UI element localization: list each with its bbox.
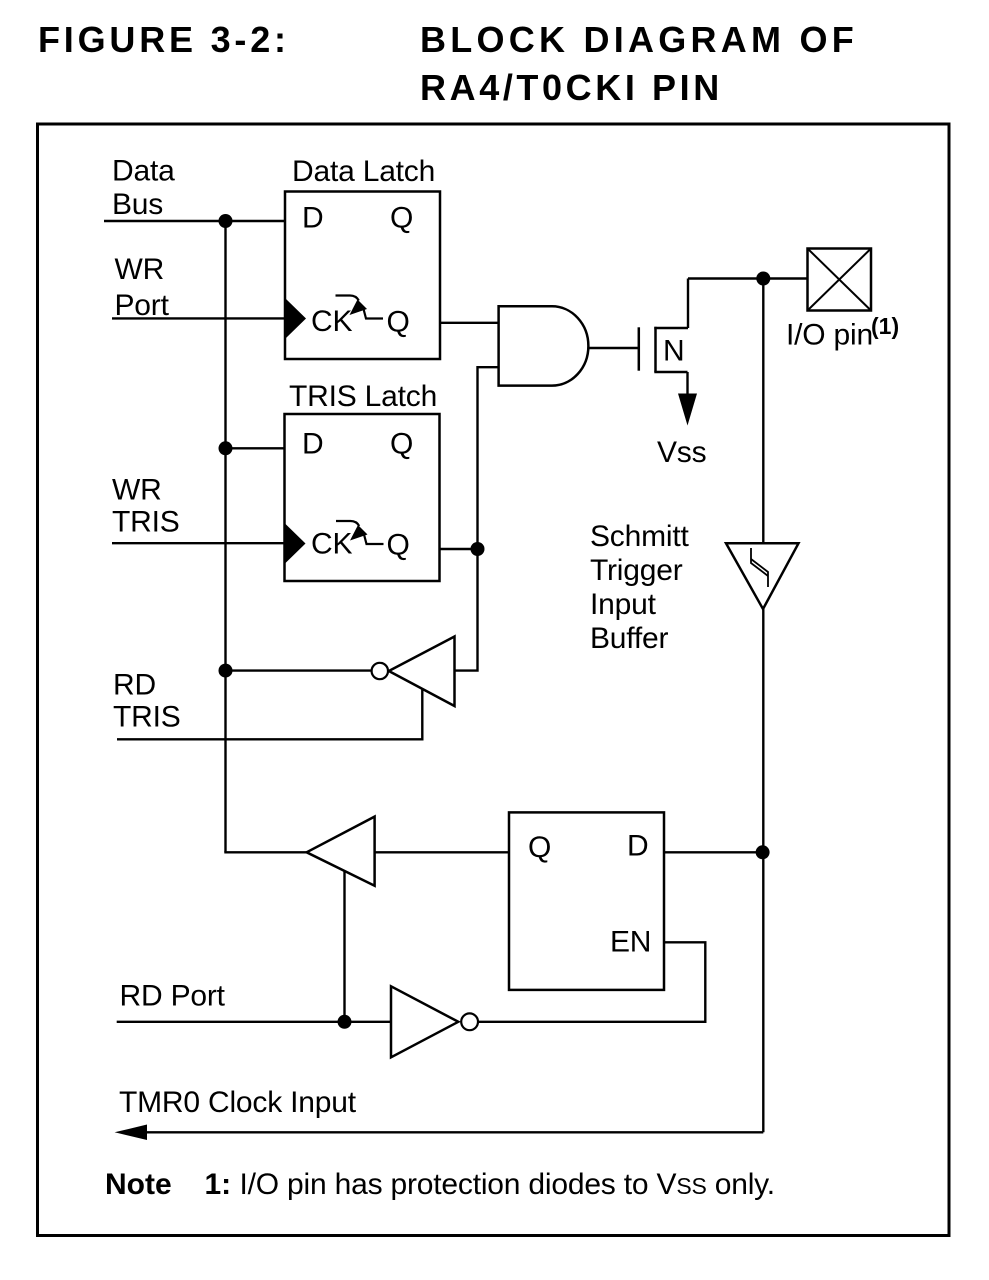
latch U1 Data Latch box: [285, 192, 440, 360]
svg-text:Q: Q: [528, 831, 551, 864]
svg-text:Bus: Bus: [112, 188, 163, 221]
wire: RD TRIS enable: [117, 689, 422, 740]
svg-text:RA4/T0CKI PIN: RA4/T0CKI PIN: [420, 67, 723, 108]
junction: I/O pin node dot: [756, 272, 770, 286]
svg-text:Q: Q: [387, 529, 410, 562]
svg-text:Q: Q: [387, 306, 410, 339]
wire: data bus vertical rail: [224, 221, 226, 852]
svg-text:Data Latch: Data Latch: [292, 155, 435, 188]
wire: drain to I/O pin: [688, 277, 808, 279]
wire: data latch Q to AND gate top input: [440, 322, 499, 324]
wire: TMR0 clock output run: [147, 1131, 764, 1133]
gate bar: [638, 327, 641, 370]
junction: RD Port dot: [338, 1015, 352, 1029]
svg-text:FIGURE 3-2:: FIGURE 3-2:: [38, 19, 290, 60]
clock edge arrow glyph (data latch): [336, 296, 359, 301]
svg-text:Port: Port: [115, 289, 170, 322]
junction: data bus RD TRIS dot: [219, 664, 233, 678]
svg-text:I/O pin: I/O pin: [786, 319, 873, 352]
arrowhead TMR0 (points left): [115, 1125, 147, 1141]
junction: TRIS Q node dot: [471, 542, 485, 556]
tri-state buffer U5 (RD TRIS readback, points left): [389, 637, 455, 707]
svg-text:WR: WR: [115, 253, 165, 286]
svg-text:N: N: [663, 335, 684, 368]
buffer U7 (bus driver, points left): [307, 817, 375, 886]
output latch U6 (Q/D/EN) box: [509, 812, 664, 990]
svg-text:CK: CK: [311, 528, 352, 561]
svg-text:Buffer: Buffer: [590, 622, 669, 655]
AND gate U3: [499, 306, 589, 385]
inversion bubble: [372, 663, 388, 679]
svg-text:Trigger: Trigger: [590, 554, 683, 587]
svg-text:EN: EN: [610, 926, 651, 959]
hysteresis glyph: [751, 548, 768, 576]
wire: buffer enable drop to RD Port: [343, 871, 345, 1021]
svg-text:D: D: [302, 428, 323, 461]
svg-text:Data: Data: [112, 154, 175, 187]
junction: Data Bus node dot: [219, 214, 233, 228]
svg-text:Input: Input: [590, 588, 657, 621]
wire: TRIS Q vertical up to AND gate: [478, 367, 499, 549]
svg-text:Schmitt: Schmitt: [590, 520, 689, 553]
channel bar: [654, 327, 657, 372]
wire: AND output to NMOS gate: [588, 347, 638, 349]
svg-text:CK: CK: [311, 305, 352, 338]
svg-text:I/O pin has protection diodes: I/O pin has protection diodes to VSS onl…: [240, 1168, 775, 1201]
wire: I/O node vertical down to Schmitt buffer: [762, 279, 764, 544]
svg-text:TRIS Latch: TRIS Latch: [289, 380, 437, 413]
wire: TRIS latch D input stub: [226, 447, 285, 449]
svg-text:D: D: [627, 830, 648, 863]
I/O pin pad symbol (box with X): [808, 249, 872, 311]
svg-text:D: D: [302, 202, 323, 235]
svg-text:WR: WR: [112, 474, 162, 507]
svg-text:TRIS: TRIS: [112, 506, 180, 539]
junction: data bus to TRIS D dot: [219, 441, 233, 455]
wire: I/O node to latch D input: [664, 851, 763, 853]
source stub: [654, 371, 687, 373]
latch U2 TRIS Latch box: [285, 414, 440, 581]
clock input triangle (data latch CK): [286, 299, 306, 338]
svg-text:Note: Note: [105, 1168, 172, 1201]
clock input triangle (TRIS latch CK): [286, 524, 306, 563]
wire: RD Port horizontal: [117, 1021, 391, 1023]
drain riser: [687, 279, 689, 329]
drain stub: [654, 327, 688, 329]
wire: buffer output onto data bus: [224, 851, 306, 853]
inversion bubble: [461, 1013, 478, 1030]
svg-text:TMR0 Clock Input: TMR0 Clock Input: [119, 1086, 357, 1119]
svg-text:Q: Q: [390, 428, 413, 461]
wire: latch Q to buffer input: [375, 851, 509, 853]
wire: inverter output to latch EN: [478, 942, 705, 1022]
source drop: [686, 372, 688, 394]
Schmitt trigger buffer U4 (triangle): [726, 543, 799, 609]
svg-text:RD: RD: [113, 668, 156, 701]
ground Vss arrow: [678, 394, 697, 426]
wire: TRIS Q vertical down to RD TRIS buffer input: [455, 549, 478, 671]
wire: buffer output to data bus: [226, 669, 372, 671]
inverter U8 (RD Port, points right): [391, 986, 458, 1057]
svg-text:BLOCK DIAGRAM OF: BLOCK DIAGRAM OF: [420, 19, 858, 60]
svg-text:1:: 1:: [205, 1168, 232, 1201]
svg-text:Vss: Vss: [657, 436, 706, 469]
wire: Data Bus horizontal into latch D: [104, 220, 285, 222]
clock edge arrow glyph (TRIS latch): [336, 521, 359, 526]
junction: latch D node dot: [756, 845, 770, 859]
svg-text:TRIS: TRIS: [113, 701, 181, 734]
svg-text:RD Port: RD Port: [120, 980, 226, 1013]
wire: TRIS latch Q output to node: [440, 548, 478, 550]
svg-text:Q: Q: [390, 202, 413, 235]
wire: WR TRIS horizontal to TRIS latch CK: [112, 542, 285, 544]
wire: Schmitt output vertical down to latch D and TMR0: [762, 609, 764, 1132]
svg-text:(1): (1): [871, 313, 899, 339]
wire: WR Port horizontal to data latch CK: [112, 317, 285, 319]
